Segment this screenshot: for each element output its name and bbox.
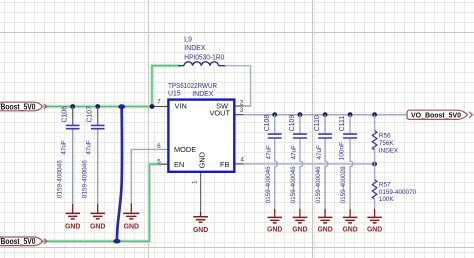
svg-text:1: 1	[191, 180, 198, 184]
junction dot FB node	[372, 162, 377, 167]
svg-text:HPI0530-1R0: HPI0530-1R0	[184, 54, 224, 61]
svg-text:47uF: 47uF	[265, 145, 272, 160]
svg-text:GND: GND	[267, 227, 282, 234]
pin 2 stub SW	[236, 105, 251, 107]
svg-text:47uF: 47uF	[316, 145, 323, 160]
ground for R57	[367, 209, 382, 234]
ground for C106	[65, 204, 80, 231]
pin 3 stub VOUT	[236, 114, 250, 116]
svg-text:2: 2	[240, 99, 244, 106]
svg-text:756K: 756K	[379, 140, 395, 147]
svg-text:GND: GND	[124, 224, 139, 231]
svg-text:6: 6	[157, 143, 161, 150]
svg-text:0159-400046: 0159-400046	[265, 166, 272, 203]
wire FB net	[244, 163, 375, 165]
pin 1 stub GND	[200, 173, 202, 213]
svg-text:TPS61022RWUR: TPS61022RWUR	[168, 83, 217, 90]
ground for MODE	[123, 204, 139, 231]
blob bottom of thick wire	[113, 239, 120, 244]
svg-text:VIN: VIN	[175, 102, 187, 111]
wire SW to inductor	[225, 66, 251, 106]
svg-text:5: 5	[157, 159, 161, 166]
ground for U15 pin1	[193, 212, 208, 234]
wire EN net (green)	[0, 164, 162, 241]
blob top of thick wire	[118, 104, 125, 109]
svg-text:GND: GND	[65, 224, 80, 231]
svg-text:0159-400046: 0159-400046	[290, 166, 297, 203]
wire VOUT rail	[244, 114, 408, 116]
svg-text:VBoost_5V0: VBoost_5V0	[0, 102, 36, 111]
svg-text:C108: C108	[264, 115, 271, 132]
svg-text:INDEX: INDEX	[184, 45, 205, 52]
capacitor C111	[339, 115, 358, 210]
svg-text:0159-400028: 0159-400028	[340, 166, 347, 203]
U15 pin names	[174, 102, 230, 169]
pin 7 stub VIN	[152, 106, 167, 108]
capacitor C109	[289, 115, 307, 210]
svg-text:FB: FB	[220, 160, 230, 169]
svg-text:7: 7	[157, 98, 161, 105]
L9 labels	[184, 37, 224, 62]
port VO_Boost_5V0 right	[407, 110, 472, 120]
svg-text:VO_Boost_5V0: VO_Boost_5V0	[411, 111, 461, 120]
resistor R57	[372, 164, 416, 210]
svg-text:GND: GND	[342, 227, 357, 234]
inductor L9	[179, 62, 226, 66]
svg-text:VBoost_5V0: VBoost_5V0	[0, 237, 36, 246]
svg-text:MODE: MODE	[174, 145, 196, 154]
svg-text:GND: GND	[367, 227, 382, 234]
svg-text:0159-400046: 0159-400046	[315, 166, 322, 203]
svg-text:4: 4	[240, 156, 244, 163]
pin 5 stub EN	[161, 163, 168, 165]
svg-text:C107: C107	[87, 106, 94, 123]
major grid line vertical right	[312, 0, 314, 258]
svg-text:47uF: 47uF	[85, 140, 92, 155]
ground for C108	[267, 209, 282, 234]
svg-text:INDEX: INDEX	[379, 147, 399, 154]
svg-text:GND: GND	[197, 152, 206, 168]
junction dots on top rail	[70, 104, 75, 109]
ground for C111	[342, 209, 357, 234]
svg-text:C110: C110	[314, 115, 321, 131]
ground for C107	[90, 204, 105, 231]
op-amp U15 TPS61022RWUR body	[168, 100, 234, 172]
svg-text:100K: 100K	[379, 196, 395, 203]
resistor R56	[372, 115, 399, 164]
svg-text:GND: GND	[90, 224, 105, 231]
U15 title labels	[168, 83, 217, 98]
svg-text:GND: GND	[317, 227, 332, 234]
port VBoost_5V0 top left	[0, 102, 47, 111]
svg-text:C111: C111	[339, 116, 346, 132]
svg-text:GND: GND	[292, 227, 307, 234]
svg-text:EN: EN	[174, 160, 184, 169]
wire VBoost_5V0 top rail (green)	[43, 66, 180, 107]
svg-text:L9: L9	[184, 37, 192, 44]
svg-text:C106: C106	[62, 106, 69, 123]
ground for C109	[292, 209, 307, 234]
capacitor C110	[314, 115, 332, 210]
wire MODE to gnd	[131, 149, 167, 205]
pin 4 stub FB	[236, 163, 244, 165]
major grid line horizontal top	[0, 32, 474, 34]
svg-text:U15: U15	[168, 91, 181, 98]
svg-text:0159-400070: 0159-400070	[379, 189, 417, 196]
capacitor C108	[264, 115, 282, 210]
svg-text:R56: R56	[379, 133, 391, 140]
svg-text:47uF: 47uF	[60, 140, 67, 155]
svg-text:VOUT: VOUT	[209, 108, 230, 117]
svg-text:47uF: 47uF	[291, 145, 298, 160]
ground for C110	[317, 209, 332, 234]
svg-text:0159-400046: 0159-400046	[82, 160, 89, 199]
svg-text:INDEX: INDEX	[192, 91, 213, 98]
svg-text:R57: R57	[379, 181, 391, 188]
thick wire VBoost (dark blue)	[117, 108, 122, 241]
major grid line vertical left	[148, 0, 150, 258]
major grid line horizontal bottom	[0, 247, 474, 249]
port VBoost_5V0 bottom left	[0, 237, 47, 246]
svg-text:0159-400046: 0159-400046	[57, 160, 64, 199]
svg-text:100nF: 100nF	[339, 142, 346, 161]
capacitor C106	[57, 106, 80, 205]
capacitor C107	[82, 106, 105, 205]
svg-text:3: 3	[240, 107, 244, 114]
svg-text:C109: C109	[289, 115, 296, 132]
svg-text:GND: GND	[193, 227, 208, 234]
junction dots on VOUT rail	[272, 112, 277, 117]
pin numbers	[157, 98, 244, 184]
